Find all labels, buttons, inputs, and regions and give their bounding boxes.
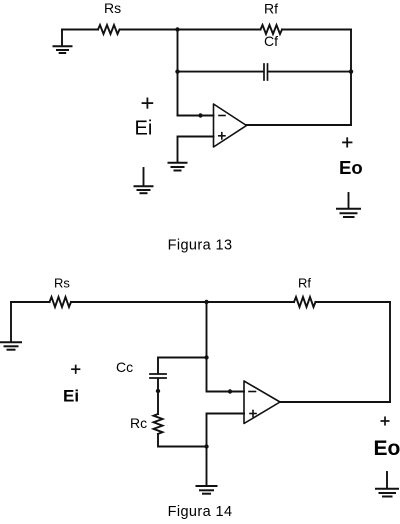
label + (Eo polarity, fig 13) — [343, 138, 352, 146]
resistor Rf (fig 14) — [294, 297, 316, 307]
node junction (summing node, fig 14) — [204, 300, 208, 304]
svg-text:Rs: Rs — [54, 276, 70, 291]
wire (Cc bottom plate to Rc) — [157, 379, 159, 414]
capacitor Cf — [264, 64, 268, 80]
resistor Rf — [261, 25, 283, 34]
ground (input source reference, fig 14 left) — [1, 302, 21, 350]
node junction (between Cc and Rc) — [156, 389, 160, 393]
node junction (Cf branch right, fig 13) — [349, 69, 353, 73]
resistor Rs — [98, 25, 120, 34]
node junction (Cf branch left, fig 13) — [175, 69, 179, 73]
wire (non-inverting input to ground) — [178, 137, 214, 163]
svg-text:Rc: Rc — [130, 415, 147, 431]
wire (left feedback column down to inverting input) — [177, 30, 179, 116]
node junction (inverting input wire, fig 13) — [198, 113, 202, 117]
svg-text:Cf: Cf — [264, 33, 278, 49]
wire (summing node down to inverting input, fig 14) — [207, 302, 245, 392]
op-amp U1 (fig 13) — [214, 104, 247, 147]
resistor Rc — [154, 414, 163, 434]
wire (op-amp output to right column) — [247, 124, 352, 126]
wire (op-amp output, fig 14) — [280, 401, 390, 403]
wire (non-inverting input to ground column, fig 14) — [207, 414, 245, 486]
resistor Rs (fig 14) — [50, 297, 72, 307]
wire (inverting input) — [178, 115, 214, 117]
node junction (Cc branch tap, fig 14) — [204, 355, 208, 359]
ground (op-amp non-inverting input, fig 13) — [169, 163, 187, 171]
label + (Eo polarity, fig 14) — [381, 417, 388, 424]
ground (op-amp non-inverting input, fig 14) — [197, 486, 217, 494]
wire (Rc bottom back to ground column) — [158, 434, 207, 447]
svg-text:Eo: Eo — [374, 437, 400, 460]
svg-text:Rf: Rf — [298, 275, 311, 290]
ground (input source reference, fig 13 left) — [54, 30, 72, 54]
op-amp U2 (fig 14) — [244, 381, 280, 424]
svg-text:Ei: Ei — [63, 387, 79, 406]
ground (Ei source reference, fig 13) — [135, 168, 153, 193]
svg-text:Figura 14: Figura 14 — [168, 504, 233, 520]
wire (right feedback column, fig 14) — [389, 302, 391, 402]
svg-text:Rf: Rf — [264, 1, 278, 17]
svg-text:Ei: Ei — [135, 118, 153, 140]
node junction (ground column / RC return, fig 14) — [204, 444, 208, 448]
wire (branch top over to Cc) — [158, 358, 207, 374]
svg-text:Cc: Cc — [116, 359, 133, 375]
svg-text:Figura 13: Figura 13 — [168, 238, 233, 254]
wire (Rf to right corner, fig 14) — [316, 301, 391, 303]
capacitor Cc — [150, 374, 166, 378]
node junction (inverting input wire, fig 14) — [228, 389, 232, 393]
label + (Ei polarity, fig 13) — [143, 98, 153, 107]
svg-text:Eo: Eo — [339, 157, 363, 178]
wire (Rs to Rf, through inverting node) — [120, 29, 261, 31]
node junction (top wire / feedback column, fig 13) — [175, 27, 179, 31]
wire (to Cf left plate) — [178, 71, 263, 73]
label + (Ei polarity, fig 14) — [72, 366, 80, 374]
wire (Rs to Rf through summing node, fig 14) — [71, 301, 294, 303]
wire (Rf to right corner) — [282, 29, 351, 31]
wire (right feedback column) — [350, 30, 352, 126]
wire (ground to Rs) — [62, 29, 98, 31]
ground (Eo reference, fig 14) — [376, 472, 398, 497]
wire (ground to Rs, fig 14) — [11, 301, 50, 303]
ground (Eo reference, fig 13) — [337, 193, 360, 217]
wire (Cf right plate to right column) — [269, 71, 351, 73]
svg-text:Rs: Rs — [104, 0, 121, 16]
